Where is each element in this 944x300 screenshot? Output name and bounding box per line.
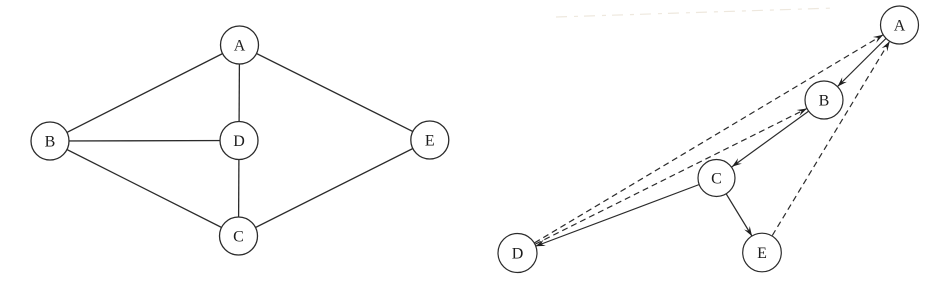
wire tree edge A-B (right graph) (824, 25, 900, 100)
wire back edge E-A dashed (right graph) (762, 25, 900, 253)
arrowhead E->A dashed (right graph) (882, 41, 890, 51)
wire edge C-D (left graph) (238, 141, 241, 237)
node D (right graph) (498, 234, 537, 273)
arrowhead A->B (right graph) (838, 77, 847, 86)
node C (left graph) (220, 217, 258, 255)
node C (right graph) (698, 160, 735, 197)
svg-text:C: C (233, 229, 244, 246)
wire back edge D-A dashed (right graph) (518, 25, 900, 253)
svg-text:C: C (711, 171, 722, 188)
node E (right graph) (743, 233, 782, 272)
svg-text:A: A (894, 18, 906, 35)
svg-text:D: D (512, 246, 524, 263)
wire edge B-C (left graph) (50, 141, 239, 236)
wire tree edge C-D (right graph) (518, 178, 717, 253)
node A (right graph) (881, 6, 919, 44)
wire edge A-B (left graph) (50, 45, 240, 141)
svg-text:A: A (234, 38, 246, 55)
node A (left graph) (221, 26, 259, 64)
svg-text:E: E (757, 245, 767, 262)
wire back edge D-B dashed (right graph) (518, 100, 825, 253)
node B (left graph) (31, 122, 69, 160)
scan artifact faint line (556, 8, 835, 17)
arrowhead D->A dashed (right graph) (873, 35, 883, 43)
wire edge C-E (left graph) (239, 140, 430, 236)
wire edge B-D (left graph) (50, 140, 239, 143)
arrowhead C->E (right graph) (744, 226, 752, 236)
wire tree edge B-C (right graph) (717, 100, 825, 178)
arrowhead D->B dashed (right graph) (797, 109, 807, 116)
node E (left graph) (411, 121, 449, 159)
wire edge A-D (left graph) (238, 45, 241, 141)
arrowhead B->C (right graph) (732, 158, 742, 167)
svg-text:E: E (425, 133, 435, 150)
arrowhead C->D (right graph) (535, 240, 546, 247)
wire edge A-E (left graph) (240, 45, 430, 140)
svg-text:B: B (45, 134, 56, 151)
svg-text:B: B (819, 93, 830, 110)
wire tree edge C-E (right graph) (717, 178, 763, 253)
svg-text:D: D (233, 133, 245, 150)
node B (right graph) (805, 81, 843, 119)
node D (left graph) (220, 122, 258, 160)
